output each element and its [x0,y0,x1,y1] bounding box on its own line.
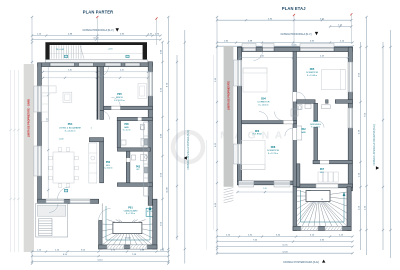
svg-text:S = 14.05 m: S = 14.05 m [258,104,269,106]
svg-text:D06: D06 [313,120,318,123]
svg-text:P02: P02 [106,161,111,164]
svg-text:LIMITA DE PROPRIETATE: LIMITA DE PROPRIETATE [227,81,230,110]
svg-text:HOL ETAJ: HOL ETAJ [252,133,261,136]
svg-text:S = 11.95 m: S = 11.95 m [114,100,125,102]
svg-text:DORMITOR: DORMITOR [258,102,270,104]
svg-text:D04: D04 [261,98,266,101]
svg-text:FATADA LATERALA STANGA [S-V]: FATADA LATERALA STANGA [S-V] [187,130,190,170]
svg-text:S = 13.40 m: S = 13.40 m [307,75,318,77]
svg-text:16: 16 [151,211,153,213]
svg-text:+0.00: +0.00 [59,139,64,141]
svg-text:D05: D05 [310,68,315,71]
svg-text:12.05: 12.05 [93,38,99,40]
svg-text:D07: D07 [320,169,325,171]
svg-text:14.10: 14.10 [97,260,103,262]
svg-text:FATADA POSTERIOARA [S-E]: FATADA POSTERIOARA [S-E] [283,260,319,264]
svg-text:11.55: 11.55 [291,44,297,46]
svg-text:4.30: 4.30 [68,70,72,72]
svg-text:B02: B02 [301,129,306,131]
svg-text:4.42: 4.42 [120,70,124,72]
svg-text:LIVING & BUCATARIE: LIVING & BUCATARIE [59,126,82,129]
svg-text:1.20: 1.20 [263,188,266,190]
svg-text:D03: D03 [255,131,260,133]
svg-text:11.55: 11.55 [282,245,288,247]
svg-text:16: 16 [321,199,323,201]
svg-text:TE. +0.45: TE. +0.45 [56,49,64,51]
svg-text:FATADA LATERALA DREAPTA [N-E]: FATADA LATERALA DREAPTA [N-E] [373,124,376,165]
svg-text:12.00: 12.00 [282,251,288,253]
svg-text:P08: P08 [124,124,129,126]
svg-text:17x18.5: 17x18.5 [125,237,131,239]
svg-text:CASA SCARII: CASA SCARII [124,209,138,212]
svg-text:P03: P03 [136,166,141,168]
svg-text:DORMITOR: DORMITOR [306,72,318,74]
svg-text:BAIE: BAIE [124,126,129,129]
svg-text:PLAN ETAJ: PLAN ETAJ [282,6,306,11]
svg-text:P01: P01 [128,206,133,209]
svg-text:DRESSING: DRESSING [310,124,321,126]
svg-text:S = 6.60 m: S = 6.60 m [103,168,113,170]
svg-text:WC: WC [136,169,140,171]
svg-text:S = 6.20 m: S = 6.20 m [311,127,320,129]
svg-text:S = 4.4 m: S = 4.4 m [123,130,131,132]
svg-text:4.18: 4.18 [320,55,324,57]
svg-text:FATADA PRINCIPALA [N-V]: FATADA PRINCIPALA [N-V] [281,33,312,36]
svg-text:S = 7.35 m: S = 7.35 m [126,213,136,215]
svg-text:BAIE: BAIE [301,131,306,134]
svg-text:PLAN PARTER: PLAN PARTER [83,10,113,15]
svg-text:D08: D08 [271,146,276,149]
svg-text:P05: P05 [117,93,122,96]
svg-text:11.90: 11.90 [166,187,168,193]
svg-text:BIROU: BIROU [116,97,123,99]
svg-text:S = 24.50 m: S = 24.50 m [65,130,76,132]
svg-text:LIMITA DE PROPRIETATE · GARD: LIMITA DE PROPRIETATE · GARD [27,99,30,137]
svg-text:DORMITOR: DORMITOR [267,150,279,152]
svg-text:S = 12.70 m: S = 12.70 m [268,153,279,155]
svg-text:P04: P04 [68,122,73,126]
svg-text:FATADA PRINCIPALA [N-V]: FATADA PRINCIPALA [N-V] [83,29,114,32]
svg-text:+2.70: +2.70 [108,49,113,51]
